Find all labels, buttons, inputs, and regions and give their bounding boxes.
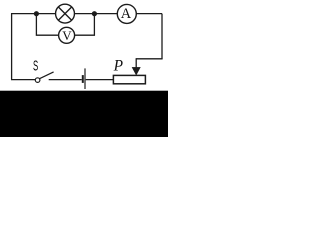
- battery BT1 short thick plate: [82, 75, 84, 83]
- switch S pivot: [35, 78, 40, 83]
- wire: ammeter to top-right corner: [136, 13, 162, 15]
- rheostat R1 body: [113, 75, 145, 83]
- voltmeter U2: [59, 27, 75, 43]
- svg-text:S: S: [33, 59, 38, 75]
- wire: voltmeter branch left (from left junction down and right): [36, 14, 58, 36]
- wire: switch to battery: [49, 79, 82, 81]
- wire: elbow to slider stem: [136, 58, 162, 60]
- ammeter U1: [117, 4, 136, 23]
- wire: battery to rheostat: [86, 79, 114, 81]
- wire: bottom run from left corner to switch: [11, 79, 35, 81]
- black censor bar at bottom: [0, 91, 168, 137]
- node: junction dot left (lamp/voltmeter tap): [34, 11, 39, 16]
- svg-text:A: A: [121, 6, 132, 22]
- svg-text:P: P: [113, 58, 124, 75]
- svg-text:V: V: [62, 28, 72, 43]
- wire: slider stem down: [135, 58, 137, 68]
- wire: lamp to ammeter: [74, 13, 117, 15]
- lamp L1 (circle with X): [56, 4, 75, 23]
- arrowhead of rheostat slider: [132, 67, 140, 75]
- wire: left vertical side: [11, 14, 13, 80]
- wire: right vertical side: [161, 14, 163, 59]
- switch S blade (open): [40, 72, 54, 79]
- battery BT1 long thin plate: [84, 68, 86, 89]
- node: junction dot right (voltmeter tap): [92, 11, 97, 16]
- wire: top run from left corner to lamp: [11, 13, 56, 15]
- wire: voltmeter branch right (right and up to right junction): [75, 14, 95, 36]
